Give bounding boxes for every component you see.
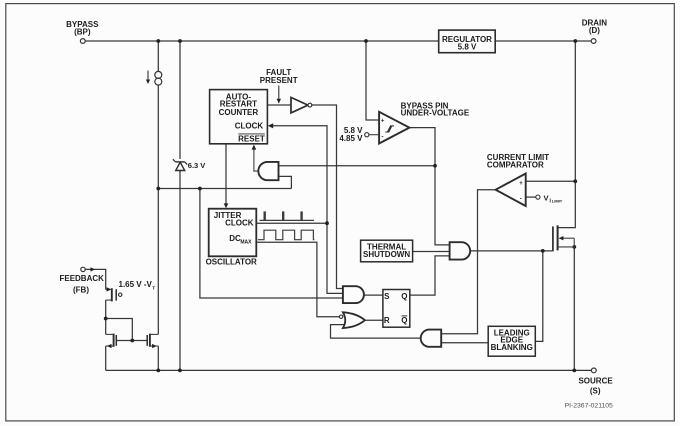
inverter (fault present) [291, 97, 312, 113]
wire upper FET source down to mirror node [105, 300, 107, 318]
junction BP rail / zener branch [178, 39, 182, 43]
svg-text:1.65 V -V: 1.65 V -V [119, 280, 153, 289]
svg-text:DC: DC [229, 234, 241, 243]
reset AND gate (left-pointing) [258, 162, 278, 180]
terminal BYPASS (BP) [66, 20, 99, 43]
wire Q output up to big AND bottom input [410, 256, 450, 295]
svg-text:RESET: RESET [238, 134, 265, 143]
junction feedback FET drain node [104, 317, 108, 321]
clock spike waveform [260, 211, 315, 220]
wire big AND output to gate node [470, 250, 552, 252]
junction mirror gate rail [130, 339, 134, 343]
svg-text:T: T [152, 286, 155, 292]
thermal shutdown box [361, 240, 413, 262]
svg-text:(FB): (FB) [73, 286, 89, 295]
wire inverter output down to S-AND top input [312, 105, 343, 289]
wire right FET drain up to main rail [157, 189, 159, 335]
svg-text:SOURCE: SOURCE [578, 377, 613, 386]
wire diode connection to gate rail [106, 319, 133, 341]
wire reset-AND bottom input riser [279, 176, 292, 188]
wire current source branch lower [157, 85, 159, 189]
terminal FEEDBACK (FB) [59, 267, 104, 294]
svg-text:CLOCK: CLOCK [235, 121, 264, 130]
LEB-AND gate (left-pointing) [421, 330, 441, 347]
terminal DRAIN (D) [582, 19, 608, 44]
junction BP rail / UV comparator input [364, 39, 368, 43]
wire left FET source down to rail [105, 346, 107, 370]
svg-text:6.3 V: 6.3 V [188, 161, 206, 170]
svg-text:UNDER-VOLTAGE: UNDER-VOLTAGE [401, 109, 470, 118]
wire mirror node down to left FET drain [105, 319, 107, 335]
svg-text:BLANKING: BLANKING [491, 343, 533, 352]
op-amp U-UV bypass pin under-voltage comparator [379, 102, 470, 144]
svg-text:+: + [519, 181, 523, 187]
svg-text:(D): (D) [589, 26, 600, 35]
transistor mirror FET right [147, 334, 158, 349]
wire zener branch lower [179, 171, 181, 371]
junction source rail / zener branch [178, 369, 182, 373]
svg-text:COUNTER: COUNTER [219, 108, 259, 117]
svg-text:SHUTDOWN: SHUTDOWN [363, 250, 410, 259]
svg-text:-: - [382, 135, 384, 141]
transistor mirror FET left [106, 334, 117, 349]
svg-text:OSCILLATOR: OSCILLATOR [206, 257, 257, 266]
wire mirror gate rail [116, 340, 147, 342]
svg-text:(S): (S) [590, 386, 601, 395]
wire current limit minus input to terminal [526, 196, 536, 198]
svg-text:LIMIT: LIMIT [552, 199, 563, 204]
svg-text:+: + [381, 118, 385, 124]
terminal V-ILIMIT [536, 193, 563, 204]
big AND gate (gate driver) [450, 242, 471, 259]
wire LEB right side up to gate node [535, 251, 543, 342]
arrowhead CLOCK input [268, 123, 273, 128]
flip-flop SR latch box [383, 290, 410, 328]
oscillator jitter clock box [206, 209, 257, 267]
svg-text:(BP): (BP) [74, 28, 91, 37]
wire counter to inverter [267, 104, 291, 106]
arrowhead counter to oscillator [224, 203, 229, 208]
svg-text:PI-2367-021105: PI-2367-021105 [565, 403, 613, 410]
junction source rail / right mirror FET [156, 369, 160, 373]
wire drain line down to MOSFET drain [558, 41, 576, 228]
wire current source branch upper [157, 41, 159, 72]
zener diode 6.3 V [173, 159, 205, 170]
wire UV comparator output down to big AND top input [409, 128, 449, 245]
auto-restart counter box [210, 90, 268, 144]
wire counter CLOCK input from clock line [273, 126, 343, 294]
terminal 5.8/4.85 V threshold [339, 126, 379, 143]
wire zener branch upper [179, 41, 181, 159]
transistor Q1 output MOSFET [553, 225, 574, 251]
junction BP rail / current source [156, 39, 160, 43]
junction drain rail / drain pin [573, 39, 577, 43]
wire reset-AND top input to UV node [279, 165, 436, 167]
wire DCmax output to OR bubble input [256, 242, 339, 317]
leading edge blanking box [488, 326, 535, 356]
wire bottom source rail [106, 369, 592, 371]
current source IBP [146, 71, 162, 86]
wire current limit plus input to drain line [526, 180, 576, 182]
junction mid rail / feedback sense riser [198, 187, 202, 191]
svg-text:5.8 V: 5.8 V [458, 42, 477, 51]
wire UV comparator plus input [366, 41, 379, 120]
junction source rail / MOSFET source [572, 369, 576, 373]
svg-text:R: R [384, 316, 390, 325]
junction MOSFET source-body [572, 245, 576, 249]
svg-text:S: S [384, 292, 390, 301]
wire main horizontal rail y188 [158, 188, 291, 190]
svg-text:COMPARATOR: COMPARATOR [487, 161, 544, 170]
wire S-AND output to S [364, 294, 383, 296]
wire counter to oscillator [225, 144, 227, 205]
wire current limit comparator output down to LEB-AND top input [441, 190, 495, 334]
wire MOSFET source down to source rail [573, 247, 575, 371]
svg-text:-: - [520, 197, 522, 203]
transistor feedback PMOS [106, 280, 156, 301]
junction UV output / reset-AND input [433, 164, 437, 168]
arrowhead RESET input (from reset AND) [252, 145, 259, 172]
junction clock line [325, 221, 329, 225]
wire LEB output to LEB-AND bottom input [441, 342, 488, 344]
svg-text:FEEDBACK: FEEDBACK [59, 274, 104, 283]
OR gate (R input) [339, 312, 365, 328]
svg-text:CLOCK: CLOCK [225, 218, 254, 227]
wire top rail regulator to drain [495, 40, 575, 42]
junction drain line / comparator plus input [573, 179, 577, 183]
svg-text:Q: Q [401, 316, 407, 325]
op-amp current limit comparator [487, 153, 549, 206]
wire drain stub to terminal [575, 40, 591, 42]
junction mid rail / current source branch [156, 187, 160, 191]
svg-text:Q: Q [401, 292, 407, 301]
wire thermal shutdown to big AND middle input [413, 251, 450, 253]
wire feedback sense line to S-AND bottom input [200, 189, 343, 299]
terminal SOURCE (S) [578, 368, 613, 395]
DCmax square waveform [258, 230, 315, 240]
svg-text:MAX: MAX [240, 239, 252, 245]
label FAULT PRESENT with arrow [260, 68, 298, 103]
wire LEB-AND output to OR bottom input [331, 325, 421, 339]
wire right FET source down to rail [157, 346, 159, 370]
svg-text:PRESENT: PRESENT [260, 76, 298, 85]
wire OR output to R [365, 319, 383, 321]
S-AND gate (3 input) [343, 286, 364, 303]
wire oscillator clock output [256, 222, 327, 224]
wire top rail BP to regulator [85, 40, 438, 42]
svg-text:4.85 V: 4.85 V [339, 134, 363, 143]
wire feedback pin to upper FET [85, 269, 105, 289]
regulator U-REG box [439, 30, 496, 53]
junction gate node / LEB riser [541, 249, 545, 253]
